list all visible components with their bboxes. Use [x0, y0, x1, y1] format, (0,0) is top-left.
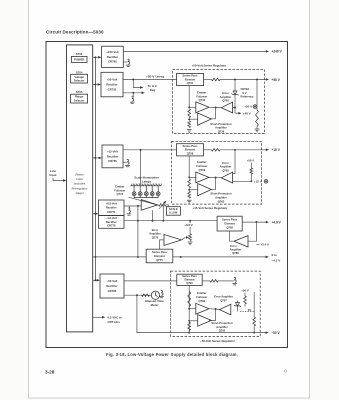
node +5.4 V label — [256, 243, 259, 245]
svg-text:SCALE: SCALE — [169, 207, 178, 211]
junction bus/+15 feed — [94, 157, 96, 159]
svg-text:Error: Error — [152, 228, 159, 232]
svg-text:+240-Volt: +240-Volt — [106, 50, 118, 54]
series pass element Q775 — [146, 249, 173, 263]
power input block (includes preregulator) — [67, 45, 93, 332]
junction under Q772 — [152, 220, 154, 222]
wire +50V rail to output — [220, 79, 266, 81]
svg-text:−50-Volt Series Regulator: −50-Volt Series Regulator — [200, 339, 236, 343]
svg-text:Emitter: Emitter — [197, 91, 206, 95]
wire Q790 output — [202, 280, 210, 282]
svg-text:−4.2-Volt: −4.2-Volt — [106, 216, 117, 220]
junction +15 test point — [250, 180, 252, 182]
svg-text:Selector: Selector — [74, 98, 85, 102]
svg-text:Power: Power — [75, 173, 83, 177]
svg-text:Range: Range — [75, 95, 84, 99]
svg-text:Q775: Q775 — [156, 258, 163, 262]
svg-text:Error Amplifier: Error Amplifier — [214, 295, 233, 299]
emitter follower Q759 triangle — [196, 172, 209, 183]
junction +50V unreg — [132, 79, 134, 81]
svg-text:Q758: Q758 — [187, 152, 194, 156]
series pass element Q751 — [177, 73, 204, 85]
svg-text:Error: Error — [222, 161, 229, 165]
resistor +6.8 divider — [189, 234, 192, 241]
wire below zener — [234, 96, 236, 113]
svg-text:+240 V: +240 V — [272, 50, 283, 54]
svg-text:Q772: Q772 — [117, 192, 124, 196]
svg-text:Element: Element — [184, 278, 194, 282]
svg-text:+15 V: +15 V — [272, 148, 281, 152]
wire +50V unregulated — [123, 79, 177, 81]
wire divider to -50 rail — [253, 326, 255, 333]
wire scale illum node to rail — [162, 205, 164, 221]
wire SP input stub Q763 — [189, 189, 198, 191]
resistor bias divider upper -50 — [188, 292, 191, 307]
junction +4.8 feedback — [255, 221, 257, 223]
wire EF input stub Q796 — [189, 308, 196, 310]
svg-text:Short-Protection: Short-Protection — [210, 192, 232, 196]
wire Q796 bias chain -50 — [188, 285, 190, 308]
resistor +15V divider — [250, 168, 253, 174]
svg-text:Series Pass: Series Pass — [182, 144, 198, 148]
ground below bias divider Q743 — [187, 130, 192, 133]
rectifier CR770 (-4.2 V) — [99, 216, 125, 229]
junction right divider — [256, 79, 258, 81]
wire CR771 to Q772 — [124, 205, 141, 207]
wire CR770 node down to -4.2 line — [137, 206, 139, 257]
wire right divider -50 reg — [253, 292, 255, 317]
svg-text:Q763: Q763 — [218, 199, 225, 203]
svg-text:+5.4 V: +5.4 V — [261, 243, 270, 247]
wire down to short-protection Q763 — [211, 177, 215, 189]
junction +6.8 divider — [189, 220, 191, 222]
svg-text:Preregulator: Preregulator — [72, 186, 88, 190]
junction bus/-4.2 line — [94, 256, 96, 258]
svg-text:Amplifier: Amplifier — [215, 126, 227, 130]
svg-text:Reference: Reference — [241, 95, 255, 99]
svg-text:Q759: Q759 — [199, 168, 206, 172]
wire zener to divider — [237, 308, 239, 312]
svg-text:Series Pass: Series Pass — [182, 74, 198, 78]
wire test point to error amp — [233, 180, 252, 182]
wire meter junction down to -50V rail — [137, 295, 171, 332]
line input wire — [53, 178, 64, 181]
junction bias chain/-50 rail — [188, 332, 190, 334]
resistor bias divider upper Q759 — [188, 179, 191, 188]
svg-text:Q746: Q746 — [222, 99, 229, 103]
wire +15V unreg to lamps — [140, 150, 142, 185]
svg-text:Q797: Q797 — [220, 299, 227, 303]
svg-text:Q796: Q796 — [199, 299, 206, 303]
resistor to elapsed time meter — [142, 294, 150, 297]
svg-text:Follower: Follower — [196, 164, 207, 168]
svg-text:Series Pass: Series Pass — [222, 217, 238, 221]
error amplifier Q776 triangle — [164, 235, 182, 246]
svg-text:Rectifier: Rectifier — [106, 206, 117, 210]
wire to +6.8V/-4.2V rectifiers — [93, 213, 96, 215]
junction SP input Q736 — [188, 118, 190, 120]
svg-text:Follower: Follower — [114, 188, 125, 192]
wire to +15V rectifier — [93, 157, 100, 159]
svg-text:Short-Protection: Short-Protection — [211, 321, 233, 325]
wire EF input stub Q759 — [189, 176, 196, 178]
wire Q788 to Q782 — [230, 231, 234, 241]
switch S704 voltage selector box — [71, 74, 88, 83]
-50V regulator dashed enclosure — [171, 271, 261, 336]
error amplifier Q746 triangle — [221, 102, 232, 113]
filter capacitor at CR765 — [123, 161, 127, 163]
svg-text:Element: Element — [185, 148, 196, 152]
svg-text:Q736: Q736 — [218, 129, 225, 133]
svg-text:+50 V: +50 V — [244, 105, 252, 109]
svg-text:Rectifier: Rectifier — [107, 55, 119, 59]
wire Q772 to scale illum connector — [166, 205, 169, 207]
svg-text:CR770: CR770 — [107, 224, 116, 228]
svg-text:Scale Illumination: Scale Illumination — [134, 175, 159, 179]
SCALE ILLUM connector — [166, 207, 180, 216]
svg-text:ILLUM: ILLUM — [169, 211, 177, 215]
junction +6.8 rail / CR770 drop — [137, 220, 139, 222]
filter capacitor at CR771 — [129, 206, 131, 208]
wire Q743 bias chain — [188, 86, 190, 107]
wire to -50 filter cap — [218, 280, 234, 282]
svg-text:Lamps: Lamps — [142, 180, 152, 184]
svg-text:S704: S704 — [76, 70, 83, 74]
junction SP input Q763 — [188, 189, 190, 191]
svg-text:+6.8-Volt: +6.8-Volt — [106, 202, 117, 206]
svg-text:Input: Input — [49, 173, 56, 177]
svg-text:Q782: Q782 — [226, 226, 233, 230]
wire EF to EA Q746 — [209, 106, 221, 108]
unregulated supply bus wire — [94, 57, 96, 280]
svg-text:Short-Protection: Short-Protection — [210, 122, 232, 126]
wire bias chain to -50 rail — [188, 309, 190, 332]
svg-text:Error: Error — [222, 91, 229, 95]
svg-text:+15-Volt: +15-Volt — [107, 150, 118, 154]
wire +15V rail to output — [220, 149, 266, 151]
wire EF to EA Q760 — [209, 176, 221, 178]
svg-text:0 to: 0 to — [272, 253, 278, 257]
svg-text:+50-Volt Series Regulator: +50-Volt Series Regulator — [192, 64, 228, 68]
svg-text:Amplifier: Amplifier — [215, 196, 227, 200]
wire +6.8V divider to ground — [189, 221, 191, 234]
junction zener branch — [234, 79, 236, 81]
wire +40V tap — [235, 112, 239, 114]
wire +4.8V output — [242, 221, 266, 223]
scale illumination lamps DS772 — [132, 186, 160, 198]
svg-text:Element: Element — [224, 222, 235, 226]
resistor bias divider lower Q743 — [188, 121, 191, 128]
svg-text:Follower: Follower — [196, 295, 207, 299]
svg-text:Emitter: Emitter — [197, 160, 206, 164]
svg-text:Voltage: Voltage — [74, 75, 84, 79]
svg-text:−4.2 V: −4.2 V — [272, 258, 281, 262]
resistor in +15V rail — [212, 149, 221, 152]
series pass element Q758 — [177, 144, 204, 156]
svg-text:(includes: (includes — [74, 182, 86, 186]
svg-text:+4.8 V: +4.8 V — [272, 220, 282, 224]
rectifier CR765 (+15 V) — [102, 145, 123, 168]
svg-text:Q788: Q788 — [232, 251, 239, 255]
svg-text:−50 V: −50 V — [271, 331, 280, 335]
svg-text:Q776: Q776 — [152, 235, 159, 239]
diagram outer frame — [46, 42, 288, 348]
short-protection amplifier Q736 triangle — [198, 113, 212, 125]
wire -50V output rail — [171, 332, 266, 334]
series pass element Q790 — [177, 274, 202, 285]
filter symbol at meter — [159, 290, 164, 297]
wire divider to ground — [256, 127, 258, 130]
short-protection amplifier Q763 triangle — [198, 184, 212, 196]
svg-text:Circuit Description—5030: Circuit Description—5030 — [46, 29, 104, 34]
wire SP input stub Q736 — [189, 118, 198, 120]
junction EA output / reference chain — [234, 107, 236, 109]
svg-text:Reg: Reg — [150, 88, 156, 92]
wire bias down — [244, 304, 246, 307]
potentiometer arrow on illumination adjust — [159, 202, 165, 209]
svg-text:Amplifier: Amplifier — [220, 165, 232, 169]
svg-text:Q792: Q792 — [219, 329, 226, 333]
wire lamp return diagonal — [129, 197, 159, 205]
wire down to short-protection Q792 — [209, 309, 216, 320]
rectifier CR785 (-50 V) — [100, 274, 124, 298]
svg-text:Meter: Meter — [151, 303, 160, 307]
svg-text:Input: Input — [76, 177, 83, 181]
resistor bias divider lower -50 — [188, 322, 191, 330]
svg-text:+50 V: +50 V — [247, 158, 255, 162]
svg-text:Amplifier: Amplifier — [230, 247, 242, 251]
wire -50V unregulated to series pass — [124, 280, 177, 282]
series pass element Q782 — [217, 216, 242, 231]
emitter follower Q772 triangle — [141, 200, 157, 211]
svg-text:CR732: CR732 — [108, 87, 117, 91]
emitter follower Q796 triangle — [196, 303, 209, 314]
wire EF input stub Q743 — [189, 106, 196, 108]
svg-text:+6.8 V: +6.8 V — [184, 223, 193, 227]
svg-text:Element: Element — [185, 77, 196, 81]
wire SP input stub Q792 — [189, 320, 198, 322]
wire 0 to -4.2V line right segment — [173, 256, 266, 258]
svg-text:Q751: Q751 — [187, 81, 194, 85]
+15V regulator dashed enclosure — [172, 141, 262, 204]
wire 9V dashed — [240, 310, 254, 312]
junction EF input Q743 — [188, 106, 190, 108]
svg-text:Series Pass: Series Pass — [152, 250, 168, 254]
junction lamp feed — [140, 149, 142, 151]
svg-text:CR771: CR771 — [107, 210, 116, 214]
junction -4.2 line — [137, 256, 139, 258]
junction bus/+240 feed — [94, 56, 96, 58]
elapsed time meter M790 — [151, 291, 159, 299]
wire to +50V rectifier — [93, 84, 99, 86]
6.2 VAC heater wire — [93, 316, 103, 318]
resistor -50 reg bias — [244, 296, 247, 304]
wire -50V rectifier lower output — [124, 294, 151, 296]
junction EF/EA -50 — [215, 308, 217, 310]
svg-text:+50-V Unreg: +50-V Unreg — [146, 74, 164, 78]
junction lower output — [132, 92, 134, 94]
junction under scale illum — [162, 220, 164, 222]
svg-text:Q790: Q790 — [186, 281, 193, 285]
svg-text:stage): stage) — [76, 191, 84, 195]
svg-text:S701: S701 — [76, 52, 83, 56]
svg-text:POWER: POWER — [74, 57, 84, 61]
error amplifier Q797 triangle — [220, 304, 231, 315]
wire to -50V rectifier — [93, 279, 98, 281]
error amplifier Q760 triangle — [221, 172, 232, 183]
wire divider down — [250, 174, 252, 181]
junction EF input Q759 — [188, 176, 190, 178]
svg-text:−50-Volt: −50-Volt — [107, 279, 118, 283]
junction divider/-50 rail — [253, 332, 255, 334]
rectifier CR732 (+50 V) — [101, 72, 123, 97]
svg-text:S705: S705 — [76, 90, 83, 94]
wire +15V unregulated — [123, 149, 177, 151]
junction EF input Q796 — [188, 308, 190, 310]
filter capacitor at CR732 — [132, 93, 134, 97]
resistor +50V divider — [256, 110, 259, 127]
junction bus/-50 feed — [94, 279, 96, 281]
junction SP input Q792 — [188, 320, 190, 322]
filter capacitor at CR790 — [123, 61, 127, 63]
svg-text:CRT Htrs: CRT Htrs — [108, 320, 121, 324]
svg-text:Rectifier: Rectifier — [106, 83, 118, 87]
wire +15V regulated rail — [204, 149, 212, 151]
wire down to short-protection Q736 — [211, 107, 215, 119]
svg-text:CR785: CR785 — [108, 289, 117, 293]
wire feedback into Q760 — [233, 150, 235, 174]
switch S701 POWER box — [72, 56, 88, 62]
svg-text:Rectifier: Rectifier — [106, 284, 118, 288]
svg-text:Emitter: Emitter — [197, 291, 206, 295]
svg-text:CR790: CR790 — [108, 59, 117, 63]
svg-text:Emitter: Emitter — [115, 185, 124, 189]
wire +50V into -50 reg — [244, 293, 246, 296]
svg-text:Rectifier: Rectifier — [107, 154, 119, 158]
svg-text:Q743: Q743 — [199, 98, 206, 102]
svg-text:+15 V: +15 V — [254, 180, 262, 184]
wire +4.8V feedback — [248, 222, 256, 241]
short-protection amplifier Q792 triangle — [198, 315, 212, 327]
wire +50V to divider — [250, 163, 252, 168]
wire Q776 input from series pass — [160, 240, 165, 249]
resistor -50V divider — [253, 317, 256, 326]
wire +50V regulated rail — [204, 79, 212, 81]
wire to HV regulator — [133, 80, 140, 88]
resistor Q772 output (illumination adjust) — [159, 204, 166, 207]
svg-text:Rectifier: Rectifier — [106, 220, 117, 224]
rectifier CR790 (+240 V) — [102, 46, 124, 67]
filter capacitor at Q790 — [232, 277, 237, 284]
wire +240V output — [123, 50, 266, 52]
lamp common hatched bar — [131, 184, 162, 186]
junction EF/EA Q746 — [215, 106, 217, 108]
emitter follower Q743 triangle — [196, 102, 209, 113]
wire to +240V rectifier — [93, 56, 99, 58]
junction -4.2 output — [180, 256, 182, 258]
svg-text:CR765: CR765 — [108, 159, 117, 163]
svg-text:+40 V: +40 V — [243, 111, 251, 115]
junction EF/EA Q760 — [215, 177, 217, 179]
junction meter branch — [136, 294, 138, 296]
svg-text:CR733: CR733 — [241, 87, 250, 91]
resistor -50V filter — [210, 280, 218, 283]
svg-text:Amplifier: Amplifier — [216, 325, 228, 329]
wire Q759 bias chain — [188, 156, 190, 177]
svg-text:Fig. 3-18. Low-Voltage Power: Fig. 3-18. Low-Voltage Power Supply deta… — [106, 352, 238, 357]
+50V regulator dashed enclosure — [173, 70, 265, 134]
zener diode 9V in -50 reg — [234, 301, 241, 308]
svg-text:Amplifier: Amplifier — [220, 95, 232, 99]
wire Q772 bottom to rail — [152, 210, 154, 221]
wire right divider — [256, 80, 258, 111]
zener diode CR733 9V reference — [232, 89, 239, 96]
svg-text:3-28: 3-28 — [45, 370, 55, 375]
svg-text:Amplifier: Amplifier — [149, 232, 161, 236]
junction feedback — [234, 149, 236, 151]
svg-text:9 V: 9 V — [243, 91, 247, 95]
node +6.8 V label — [183, 223, 195, 227]
svg-text:Element: Element — [154, 254, 165, 258]
wire zener branch — [234, 80, 236, 90]
wire Q796 to Q797 — [209, 308, 220, 311]
svg-text:Selector: Selector — [74, 78, 85, 82]
wire EA output Q746 — [233, 107, 235, 109]
junction bus/+50 feed — [94, 84, 96, 86]
svg-text:Line: Line — [50, 169, 56, 173]
error amplifier Q788 triangle — [234, 236, 248, 247]
svg-text:+50 V: +50 V — [241, 288, 249, 292]
switch S705 range selector box — [71, 94, 88, 103]
ground below +6.8 divider — [188, 242, 193, 245]
ground below bias divider Q759 — [187, 200, 192, 203]
svg-text:+15-Volt Series Regulator: +15-Volt Series Regulator — [193, 206, 229, 210]
svg-text:+50-Volt: +50-Volt — [107, 78, 118, 82]
resistor bias divider lower Q759 — [188, 191, 191, 198]
wire +50V rectifier lower output — [123, 92, 142, 94]
resistor bias divider upper Q743 — [188, 109, 191, 118]
svg-text:+50 V: +50 V — [272, 78, 281, 82]
wire +6.8V rail — [124, 220, 217, 222]
registered mark — [284, 370, 287, 373]
svg-text:Error: Error — [230, 244, 237, 248]
rectifier CR771 (+6.8 V) — [99, 200, 125, 216]
svg-text:Series Pass: Series Pass — [182, 274, 197, 278]
svg-text:Q760: Q760 — [222, 168, 229, 172]
junction CR771 node — [137, 205, 139, 207]
ground at +50 reg right — [255, 129, 260, 132]
wire Q776 output arrow to divider — [182, 237, 186, 240]
svg-text:Follower: Follower — [196, 94, 207, 98]
resistor in +50V rail — [212, 78, 221, 81]
junction bus/6.8 feed — [94, 213, 96, 215]
wire 0 to -4.2V line left segment — [93, 256, 146, 258]
